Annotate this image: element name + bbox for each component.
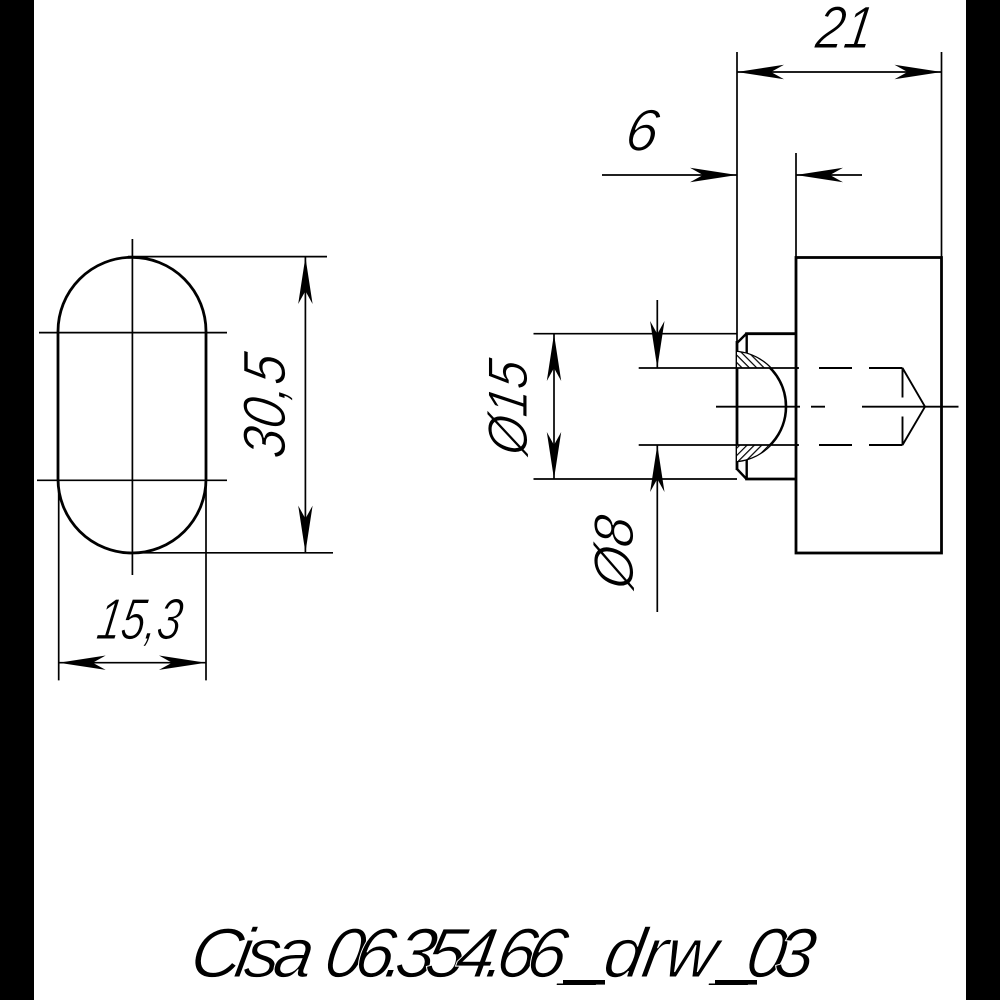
svg-text:Ø15: Ø15 [476, 354, 539, 460]
svg-text:Ø8: Ø8 [582, 511, 645, 595]
svg-text:30,5: 30,5 [230, 348, 298, 462]
svg-text:21: 21 [811, 0, 879, 61]
svg-text:15,3: 15,3 [93, 587, 187, 652]
